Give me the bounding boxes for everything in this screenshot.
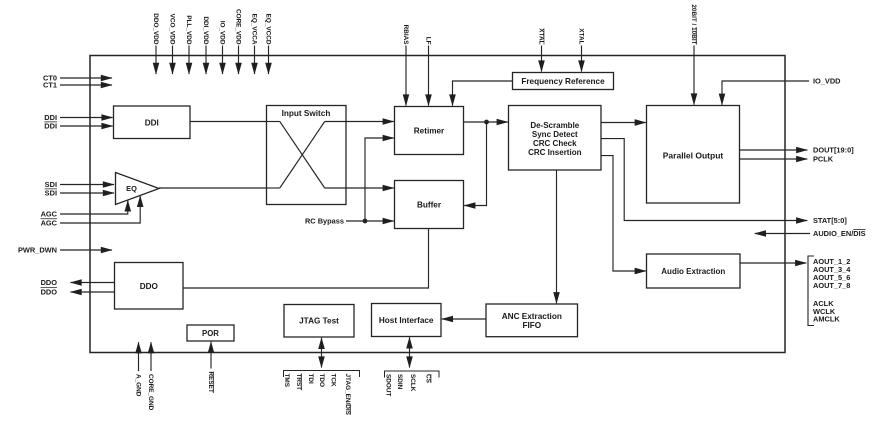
- svg-text:CRC Check: CRC Check: [533, 139, 577, 148]
- pin XTAL (inverted): [537, 28, 544, 71]
- wire IO_VDD into Parallel Output: [722, 77, 841, 105]
- pin SDI: [45, 180, 114, 189]
- svg-text:TCK: TCK: [329, 374, 336, 388]
- svg-text:PLL_VDD: PLL_VDD: [185, 15, 192, 45]
- pin AOUT_7_8: [813, 281, 850, 290]
- wire JTAG bidirectional: [321, 338, 323, 368]
- pin RBIAS: [402, 25, 409, 106]
- block Host Interface: [372, 304, 442, 337]
- svg-text:CRC Insertion: CRC Insertion: [528, 148, 581, 157]
- svg-text:Retimer: Retimer: [414, 126, 445, 135]
- bracket audio outputs: [808, 256, 814, 326]
- svg-text:DDO: DDO: [41, 278, 58, 287]
- pin SDI (inverted): [45, 189, 114, 198]
- svg-text:JTAG_EN/DIS: JTAG_EN/DIS: [344, 374, 351, 416]
- wire Input Switch to Buffer: [346, 187, 394, 189]
- block ANC Extraction FIFO: [486, 304, 578, 337]
- pin PCLK: [740, 155, 834, 164]
- power pin DDO_VDD: [152, 13, 159, 74]
- svg-text:CT1: CT1: [43, 80, 57, 89]
- wire EQ to Input Switch: [159, 187, 267, 189]
- svg-text:Frequency Reference: Frequency Reference: [521, 77, 605, 86]
- svg-text:CS: CS: [424, 374, 431, 384]
- svg-text:SDI: SDI: [45, 189, 57, 198]
- svg-text:Sync Detect: Sync Detect: [532, 130, 578, 139]
- pin ACLK: [813, 299, 834, 308]
- svg-text:XTAL: XTAL: [537, 28, 544, 44]
- junction Retimer output node: [484, 120, 489, 125]
- svg-text:AMCLK: AMCLK: [813, 315, 840, 324]
- power pin EQ_VCCD: [264, 14, 271, 74]
- pin AOUT_1_2: [813, 257, 850, 266]
- svg-text:PWR_DWN: PWR_DWN: [18, 245, 57, 254]
- block EQ (equalizer amp): [116, 173, 160, 205]
- wire RC Bypass branch to Retimer: [365, 138, 394, 221]
- pin DDO output: [41, 278, 115, 287]
- pin TMS: [283, 374, 290, 388]
- pin DDI (inverted): [44, 122, 112, 131]
- svg-text:IO_VDD: IO_VDD: [813, 77, 841, 86]
- svg-text:FIFO: FIFO: [522, 321, 541, 330]
- pin AOUT_5_6: [813, 273, 850, 282]
- svg-text:Audio Extraction: Audio Extraction: [661, 267, 725, 276]
- power pin EQ_VCCA: [250, 14, 257, 74]
- power pin DDI_VDD: [202, 16, 209, 74]
- pin CS: [424, 374, 431, 384]
- pin SCLK: [409, 374, 416, 392]
- pin AGC (inverted): [41, 196, 141, 228]
- power pin VCO_VDD: [168, 14, 175, 74]
- svg-text:LF: LF: [424, 37, 431, 45]
- svg-text:ANC Extraction: ANC Extraction: [502, 312, 562, 321]
- wire Frequency Reference to Retimer: [453, 81, 513, 106]
- pin AOUT_3_4: [813, 265, 851, 274]
- wire Input Switch to Retimer: [346, 121, 394, 123]
- pin A_GND: [134, 342, 141, 397]
- svg-text:DDO_VDD: DDO_VDD: [152, 13, 159, 45]
- svg-text:JTAG Test: JTAG Test: [299, 316, 339, 325]
- svg-text:AGC: AGC: [41, 218, 58, 227]
- block Parallel Output: [647, 106, 740, 204]
- wire De-Scramble to Parallel Output: [601, 122, 646, 124]
- pin DOUT[19:0]: [740, 146, 855, 155]
- svg-text:SDIN: SDIN: [396, 374, 403, 390]
- wire Audio Extraction to AOUT bracket: [740, 262, 806, 264]
- svg-text:TDO: TDO: [318, 374, 325, 388]
- pin PWR_DWN: [18, 245, 112, 254]
- svg-text:IO_VDD: IO_VDD: [218, 21, 225, 45]
- svg-text:DDO: DDO: [140, 282, 159, 291]
- wire De-Scramble to STAT[5:0]: [601, 139, 807, 221]
- pin AMCLK: [813, 315, 840, 324]
- svg-text:AOUT_7_8: AOUT_7_8: [813, 281, 850, 290]
- pin TDO: [318, 374, 325, 388]
- svg-text:RESET: RESET: [207, 372, 214, 393]
- svg-text:CORE_GND: CORE_GND: [147, 374, 154, 411]
- svg-text:DDI_VDD: DDI_VDD: [202, 16, 209, 44]
- wire De-Scramble to ANC Extraction FIFO: [556, 170, 558, 303]
- pin RC Bypass label: [305, 216, 344, 225]
- wire Host Interface bidirectional: [409, 337, 411, 367]
- pin STAT[5:0] label: [813, 216, 847, 225]
- svg-text:RC Bypass: RC Bypass: [305, 216, 344, 225]
- pin JTAG_EN/DIS: [344, 374, 351, 416]
- svg-text:PCLK: PCLK: [813, 155, 834, 164]
- pin XTAL: [577, 28, 584, 71]
- pin 20BIT/10BIT: [690, 4, 697, 104]
- pin AGC: [41, 200, 128, 218]
- block DDO output driver: [115, 263, 184, 310]
- wire DDI to Input Switch: [190, 121, 267, 123]
- pin SDOUT: [384, 374, 391, 396]
- chip boundary box: [90, 56, 785, 353]
- svg-text:DDI: DDI: [145, 118, 159, 127]
- bracket host interface pins: [385, 371, 440, 378]
- svg-text:CORE_VDD: CORE_VDD: [234, 9, 241, 45]
- svg-text:SCLK: SCLK: [409, 374, 416, 392]
- wire Retimer output down to Buffer: [464, 122, 486, 206]
- svg-text:TRST: TRST: [295, 374, 302, 391]
- block De-Scramble / Sync Detect / CRC: [509, 106, 602, 171]
- wire ANC Extraction FIFO to Host Interface: [442, 318, 486, 320]
- wire De-Scramble to Audio Extraction: [601, 156, 646, 271]
- svg-text:RBIAS: RBIAS: [402, 25, 409, 46]
- pin DDO output (inverted): [41, 287, 115, 296]
- block Input Switch with crossover: [267, 106, 347, 205]
- wire Retimer to De-Scramble: [464, 121, 508, 123]
- power pin IO_VDD: [218, 21, 225, 74]
- svg-text:XTAL: XTAL: [577, 28, 584, 44]
- power pin PLL_VDD: [185, 15, 192, 74]
- svg-text:SDOUT: SDOUT: [384, 374, 391, 396]
- svg-text:DDI: DDI: [44, 122, 57, 131]
- pin RESET into POR: [207, 342, 214, 393]
- svg-text:EQ_VCCA: EQ_VCCA: [250, 14, 257, 45]
- junction RC Bypass node: [363, 219, 368, 224]
- pin CORE_GND: [147, 342, 154, 410]
- block POR: [187, 325, 234, 341]
- svg-text:20BIT / 10BIT: 20BIT / 10BIT: [690, 4, 697, 44]
- svg-text:TMS: TMS: [283, 374, 290, 388]
- block Audio Extraction: [647, 254, 741, 288]
- power pin CORE_VDD: [234, 9, 241, 74]
- svg-text:A_GND: A_GND: [134, 374, 141, 397]
- svg-text:AUDIO_EN/DIS: AUDIO_EN/DIS: [813, 229, 866, 238]
- svg-text:AGC: AGC: [41, 210, 58, 219]
- svg-text:DOUT[19:0]: DOUT[19:0]: [813, 146, 854, 155]
- pin CT1: [43, 80, 112, 89]
- pin TDI: [307, 374, 314, 385]
- pin AUDIO_EN/DIS: [755, 229, 866, 238]
- svg-text:Host Interface: Host Interface: [379, 316, 434, 325]
- svg-text:Input Switch: Input Switch: [282, 109, 331, 118]
- svg-text:DDO: DDO: [41, 287, 58, 296]
- svg-text:STAT[5:0]: STAT[5:0]: [813, 216, 847, 225]
- pin CT0: [43, 73, 112, 82]
- bracket JTAG pins: [284, 371, 360, 378]
- pin WCLK: [813, 307, 836, 316]
- pin LF: [424, 37, 431, 106]
- wire RC Bypass to Buffer: [346, 220, 394, 222]
- svg-text:POR: POR: [202, 329, 219, 338]
- svg-text:EQ_VCCD: EQ_VCCD: [264, 14, 271, 45]
- block Retimer: [395, 107, 464, 155]
- svg-text:De-Scramble: De-Scramble: [530, 121, 579, 130]
- svg-text:VCO_VDD: VCO_VDD: [168, 14, 175, 45]
- pin SDIN: [396, 374, 403, 390]
- wire Buffer to DDO: [183, 229, 429, 289]
- block Frequency Reference: [513, 73, 614, 90]
- svg-text:EQ: EQ: [126, 184, 137, 193]
- svg-text:Parallel Output: Parallel Output: [663, 150, 724, 160]
- pin TRST: [295, 374, 302, 391]
- block DDI input buffer: [114, 106, 191, 139]
- block JTAG Test: [284, 305, 354, 338]
- pin DDI: [44, 113, 112, 122]
- block Buffer: [395, 181, 464, 229]
- svg-text:TDI: TDI: [307, 374, 314, 385]
- svg-text:Buffer: Buffer: [417, 200, 442, 209]
- pin TCK: [329, 374, 336, 388]
